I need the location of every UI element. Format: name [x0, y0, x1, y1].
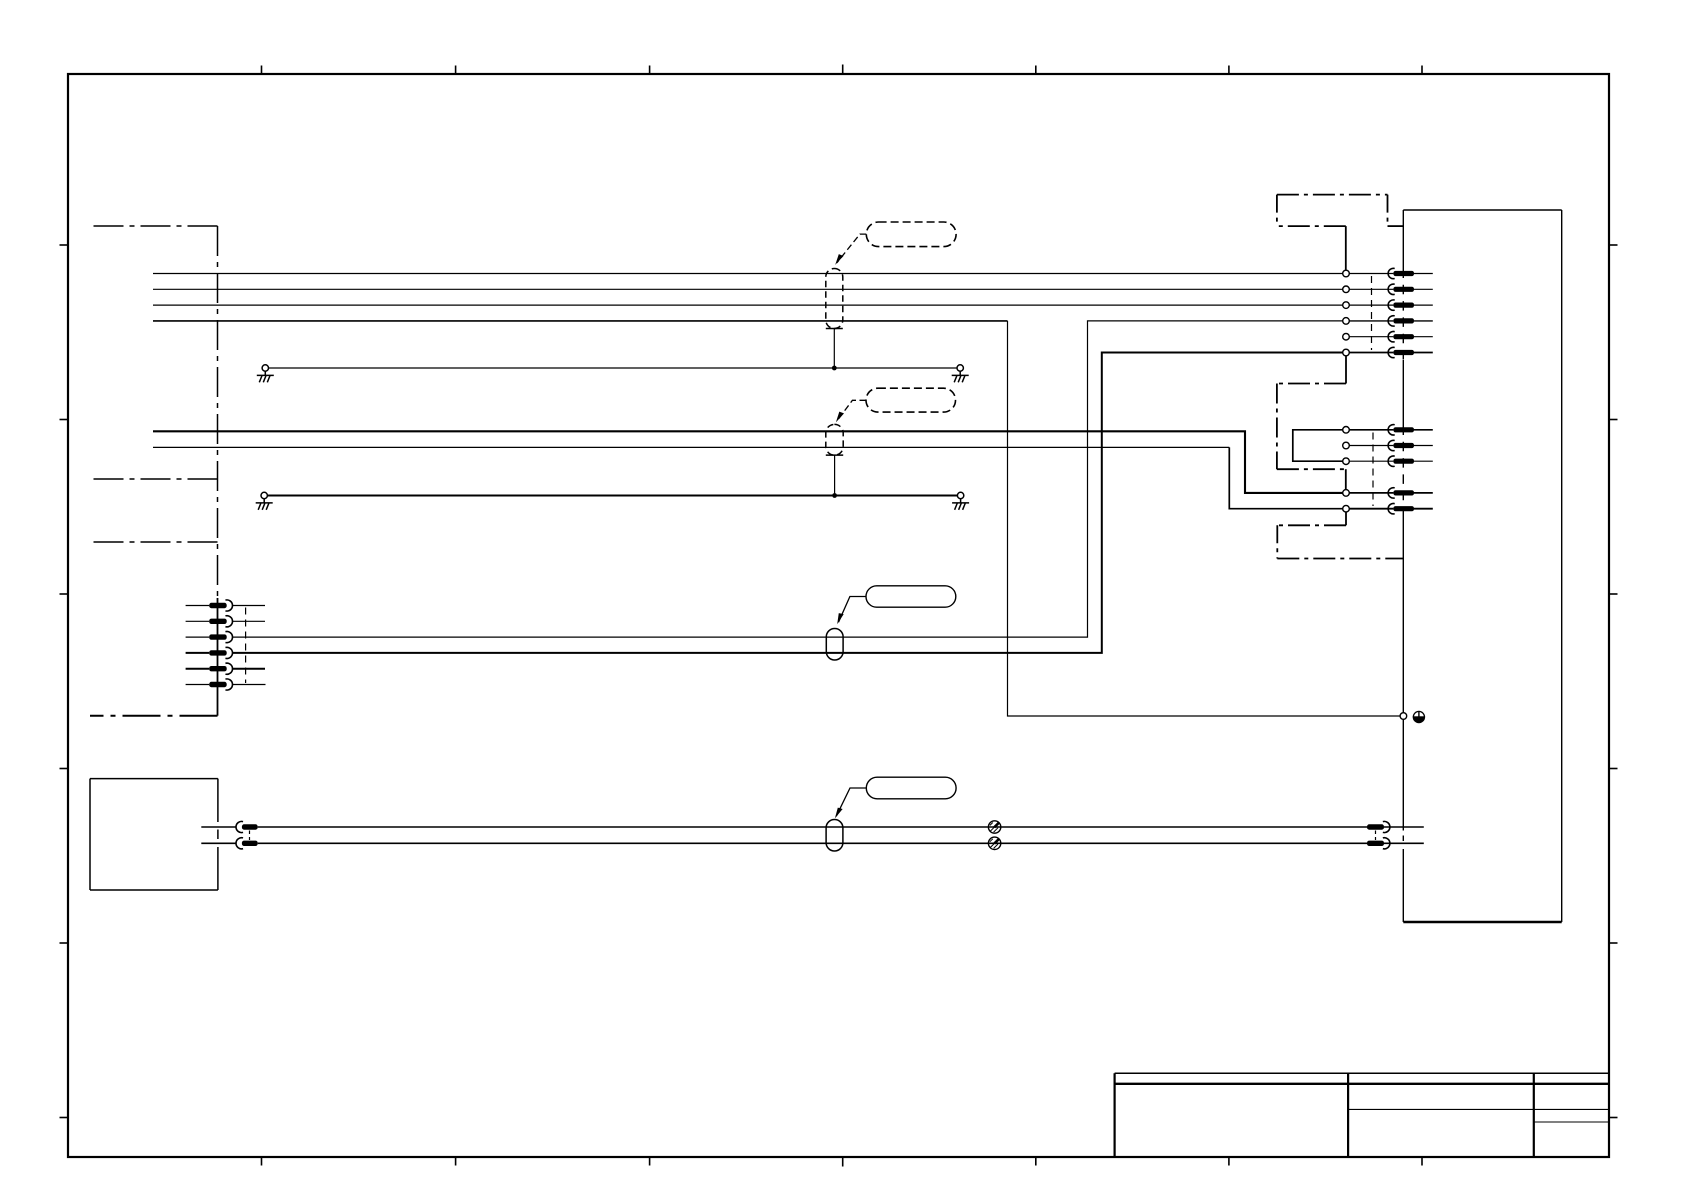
J1 pin B1 terminal [1388, 425, 1395, 435]
J1 pin A6 wire to terminal [1349, 352, 1393, 354]
callout label L1 (dashed) [866, 222, 956, 247]
wire W4 (E1 to PE terminal) [153, 320, 1008, 322]
shield S2 drain wire [834, 455, 836, 495]
splice symbol X2 on W10 [988, 837, 1000, 849]
wire W9 (E3 to J4 upper) [258, 826, 1367, 828]
J1 pin B4 terminal [1388, 488, 1395, 498]
box E2 (middle-left external unit, dash-dot outline) [90, 542, 218, 716]
leader L2 [837, 400, 866, 420]
earth symbol G2 left [256, 499, 273, 510]
box E3 (bottom-left external unit, solid outline) [90, 779, 218, 890]
J1 pin A2 node [1343, 286, 1350, 293]
wire W6 (J2 pin4 to J1 pin6) [232, 353, 1346, 653]
connector shell outline for J1 group B (dash-dot) [1277, 356, 1346, 489]
J1 pin A6 node [1343, 349, 1350, 356]
J1 pin A4 node [1343, 318, 1350, 325]
wire W8 (E1 to J1 pin A5) [153, 446, 1229, 448]
J2 pin 6 wire stub right [232, 684, 265, 686]
J4 pin 2 terminal [1367, 841, 1384, 846]
earth symbol G1 left [257, 371, 274, 382]
twisted pair symbol S3 (around W5-W6) [826, 629, 843, 661]
J1 pin A5 terminal [1388, 331, 1395, 341]
J2 connector grouping line [245, 608, 247, 684]
earth symbol G2 right [952, 499, 969, 510]
earth terminal circle G1 right [957, 365, 963, 371]
J1 pin A1 wire to terminal [1349, 273, 1393, 275]
J2 pin 3 stub [186, 636, 210, 638]
J2 pin 5 stub [186, 668, 210, 670]
J1 pin A4 wire to terminal [1349, 320, 1393, 322]
callout label L2 (dashed) [866, 388, 956, 412]
J2 pin 6 terminal [209, 682, 227, 687]
shield ground bus G2 [267, 495, 957, 497]
J1 pin B5 node [1343, 505, 1350, 512]
J2 pin 4 stub [186, 652, 210, 654]
J1 pin B4 node [1343, 490, 1350, 497]
device box U2 (right equipment unit) [1403, 210, 1561, 922]
J1 pin B4 wire to terminal [1349, 492, 1393, 494]
J1 pin A2 wire to terminal [1349, 288, 1393, 290]
J1 pin B3 wire to terminal [1349, 460, 1393, 462]
J1 pin A3 node [1343, 302, 1350, 309]
splice symbol X1 on W9 [988, 821, 1000, 833]
J4 pin 1 terminal [1367, 824, 1384, 829]
J1 group B grouping line [1372, 433, 1374, 507]
J1 pin B3 node [1343, 458, 1350, 465]
J1 pin B5 terminal [1388, 503, 1395, 513]
J1 pin B2 wire to terminal [1349, 445, 1393, 447]
junction S2 drain to G2 [832, 493, 837, 498]
PE terminal node [1400, 713, 1407, 720]
wire W3 (E1 to J1 pin3) [153, 304, 1346, 306]
jumper bracket B1-B3 [1293, 430, 1346, 461]
J2 pin 3 terminal [209, 634, 227, 639]
J1 pin A2 terminal [1388, 284, 1395, 294]
J3 pin 1 terminal [236, 821, 243, 832]
wire W7 (E1 to J1 pin A4) [153, 431, 1346, 493]
J1 group A grouping line [1371, 276, 1373, 350]
J2 pin 2 stub [186, 620, 210, 622]
twisted pair symbol S4 (around W9-W10) [826, 820, 843, 852]
J1 pin A5 node [1343, 333, 1350, 340]
shield ground bus G1 [268, 367, 957, 369]
J2 pin 1 terminal [209, 603, 227, 608]
J4 pin 1 wire into box [1384, 826, 1424, 828]
J3 pin 2 stub [201, 842, 236, 844]
wire W2 (E1 to J1 pin2) [153, 288, 1346, 290]
title block [1115, 1073, 1609, 1157]
earth terminal circle G2 left [261, 492, 267, 498]
connector shell outline lower (dash-dot) [1277, 512, 1403, 558]
J1 pin B3 terminal [1388, 456, 1395, 466]
J2 pin 1 stub [186, 605, 210, 607]
box E1/E2 shared right boundary (dash-dot) [217, 226, 219, 598]
callout label L3 (solid) [866, 586, 956, 607]
J1 pin A1 terminal [1388, 268, 1395, 278]
J1 pin A3 wire to terminal [1349, 304, 1393, 306]
connector shell outline for J1 group A (dash-dot) [1277, 195, 1403, 270]
J1 pin B2 node [1343, 442, 1350, 449]
J1 pin A6 terminal [1388, 347, 1395, 357]
J2 pin 5 terminal [209, 666, 227, 671]
leader L1 [837, 234, 867, 263]
earth terminal circle G1 left [262, 365, 268, 371]
J2 pin 2 terminal [209, 619, 227, 624]
cable shield S1 (around W1-W4) [826, 269, 843, 329]
J2 pin 6 stub [186, 684, 210, 686]
PE earth symbol [1413, 711, 1424, 722]
J3 pin 2 terminal [236, 838, 243, 849]
leader L4 [836, 788, 866, 816]
J3 connector grouping link [249, 831, 251, 841]
J3 pin 1 stub [201, 826, 236, 828]
J1 pin B5 wire to terminal [1349, 508, 1393, 510]
J2 pin 1 wire stub right [232, 605, 265, 607]
wire W10 (E3 to J4 lower) [258, 842, 1367, 844]
J1 pin A4 terminal [1388, 316, 1395, 326]
box E1 (top-left external unit, dash-dot outline) [90, 226, 218, 479]
cable shield S2 (around W7-W8) [826, 424, 843, 455]
J4 pin 2 wire into box [1384, 842, 1424, 844]
leader L3 [839, 597, 867, 623]
J1 pin A3 terminal [1388, 300, 1395, 310]
wire W1 (E1 to J1 pin1) [153, 273, 1346, 275]
J2 pin 4 terminal [209, 650, 227, 655]
wire W5 (J2 pin3 to J1 pin4) [232, 321, 1346, 637]
J1 pin A1 node [1343, 270, 1350, 277]
J1 pin B1 node [1343, 427, 1350, 434]
junction S1 drain to G1 [832, 366, 837, 371]
J2 pin 5 wire stub right [232, 668, 265, 670]
J4 connector grouping link [1375, 831, 1377, 841]
shield S1 drain wire [833, 329, 835, 369]
J2 pin 2 wire stub right [232, 620, 265, 622]
J1 pin B2 terminal [1388, 440, 1395, 450]
J1 pin A5 wire to terminal [1349, 336, 1393, 338]
callout label L4 (solid) [866, 777, 956, 799]
earth symbol G1 right [952, 371, 969, 382]
J1 pin B1 wire to terminal [1349, 429, 1393, 431]
earth terminal circle G2 right [957, 492, 963, 498]
